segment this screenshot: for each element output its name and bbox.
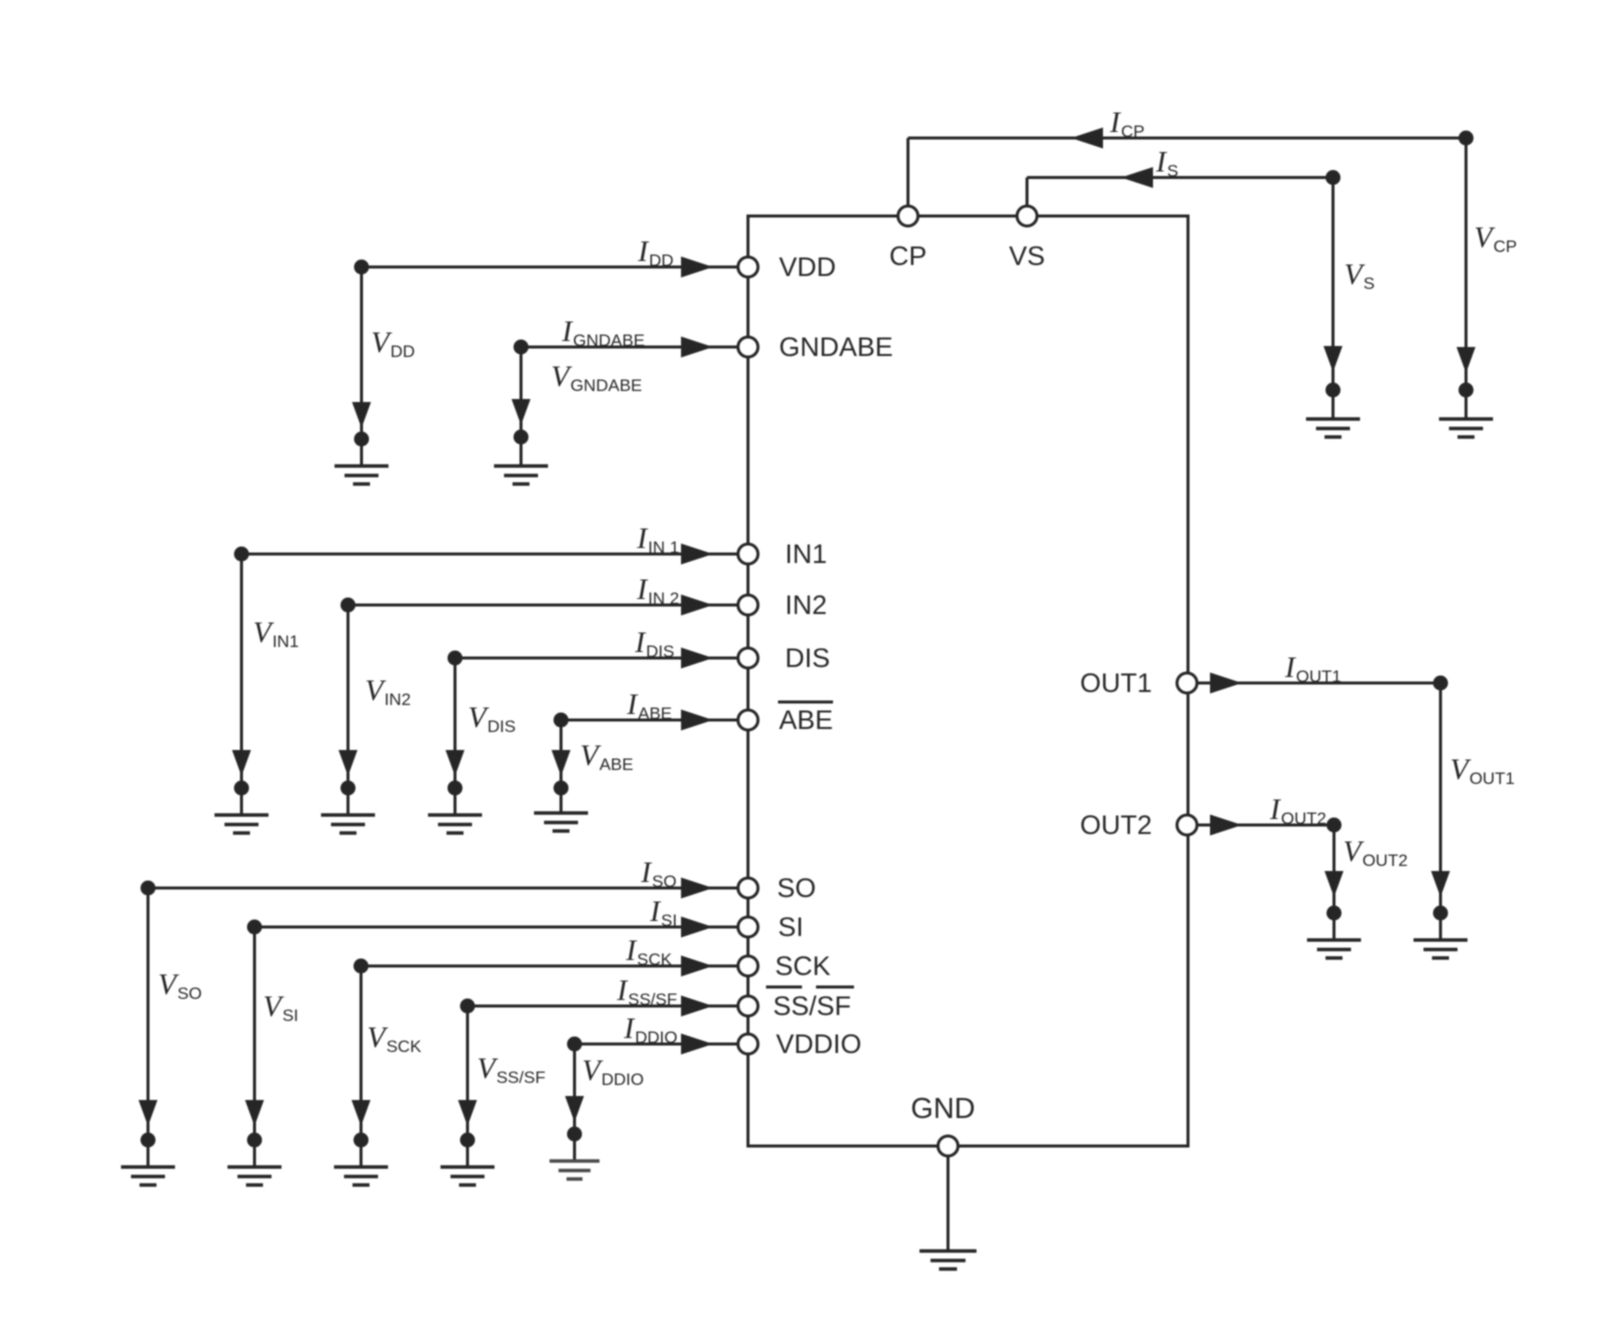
svg-text:OUT2: OUT2 [1080, 810, 1152, 840]
node I_OUT1 / V_OUT1 junction [1433, 676, 1448, 691]
voltage source V_OUT1 [1431, 683, 1450, 940]
node I_S / V_S junction [1326, 170, 1341, 185]
node source GNDABE [514, 340, 529, 355]
current arrow I_DD [681, 257, 713, 278]
wire GND to ground [947, 1156, 950, 1251]
voltage source V_DD [352, 267, 371, 466]
current arrow I_CP [1071, 128, 1103, 149]
svg-text:GNDABE: GNDABE [779, 332, 893, 362]
voltage source V_OUT2 [1325, 825, 1344, 940]
ground (V_IN 1) [215, 815, 269, 833]
pin IN1 [738, 544, 758, 564]
node I_CP / V_CP junction [1459, 131, 1474, 146]
svg-text:CP: CP [889, 241, 927, 271]
pin SI [738, 917, 758, 937]
ground (V_SI) [228, 1167, 282, 1185]
voltage source V_IN 1 [232, 554, 251, 815]
svg-text:OUT1: OUT1 [1080, 668, 1152, 698]
pin VDD [738, 257, 758, 277]
node I_OUT2 / V_OUT2 junction [1327, 818, 1342, 833]
current arrow I_S [1121, 167, 1153, 188]
voltage source V_IN 2 [339, 605, 358, 815]
voltage source V_SCK [352, 966, 371, 1167]
voltage source V_GNDABE [512, 347, 531, 466]
node source DIS [448, 651, 463, 666]
pin SCK [738, 956, 758, 976]
wire I_SO to pin SO [148, 887, 738, 890]
svg-text:SO: SO [777, 873, 816, 903]
pin DIS [738, 648, 758, 668]
node source VDD [354, 260, 369, 275]
ground (V_DDIO) [550, 1161, 600, 1179]
current arrow I_OUT2 [1210, 815, 1242, 836]
pin SO [738, 878, 758, 898]
pin SS/SF [738, 996, 758, 1016]
voltage source V_S [1324, 178, 1343, 420]
node source IN1 [234, 547, 249, 562]
current arrow I_SO [681, 878, 713, 899]
current arrow I_SCK [681, 956, 713, 977]
current arrow I_DDIO [681, 1034, 713, 1055]
ground (V_ABE) [534, 813, 588, 831]
wire I_CP (CP riser + horizontal) [908, 138, 1466, 206]
ground (V_S) [1306, 419, 1360, 437]
svg-text:VDDIO: VDDIO [776, 1029, 862, 1059]
current arrow I_IN 1 [681, 544, 713, 565]
wire I_SS/SF to pin SS/SF [468, 1005, 739, 1008]
wire I_GNDABE to pin GNDABE [521, 346, 738, 349]
wire I_DDIO to pin VDDIO [575, 1043, 739, 1046]
svg-text:VS: VS [1009, 241, 1045, 271]
voltage source V_SS/SF [458, 1006, 477, 1167]
svg-text:VDD: VDD [779, 252, 836, 282]
ground (V_OUT1) [1414, 940, 1468, 958]
ground (V_DD) [335, 466, 389, 484]
ground (V_CP) [1439, 419, 1493, 437]
pin GND [938, 1136, 958, 1156]
ground (V_IN 2) [321, 815, 375, 833]
node source SO [141, 881, 156, 896]
node source IN2 [341, 598, 356, 613]
pin ABE [738, 710, 758, 730]
wire I_IN 1 to pin IN1 [242, 553, 739, 556]
pin IN2 [738, 595, 758, 615]
svg-text:SS/SF: SS/SF [773, 991, 851, 1021]
svg-text:ABE: ABE [779, 705, 833, 735]
current arrow I_GNDABE [681, 337, 713, 358]
svg-text:DIS: DIS [785, 643, 830, 673]
current arrow I_DIS [681, 648, 713, 669]
svg-text:SCK: SCK [775, 951, 831, 981]
ground (V_OUT2) [1307, 940, 1361, 958]
ground (V_SO) [121, 1167, 175, 1185]
voltage source V_CP [1457, 138, 1476, 419]
wire I_SCK to pin SCK [361, 965, 738, 968]
wire I_OUT2 [1197, 824, 1334, 827]
svg-text:GND: GND [911, 1093, 975, 1125]
current arrow I_SI [681, 917, 713, 938]
wire I_DD to pin VDD [362, 266, 739, 269]
current arrow I_IN 2 [681, 595, 713, 616]
pin VS [1017, 206, 1037, 226]
wire I_IN 2 to pin IN2 [348, 604, 738, 607]
current arrow I_OUT1 [1210, 673, 1242, 694]
ground (V_GNDABE) [494, 466, 548, 484]
wire I_DIS to pin DIS [455, 657, 738, 660]
svg-text:IN2: IN2 [785, 590, 827, 620]
voltage source V_SI [245, 927, 264, 1167]
ground (V_SS/SF) [441, 1167, 495, 1185]
voltage source V_ABE [552, 720, 571, 813]
pin CP [898, 206, 918, 226]
node source SI [247, 920, 262, 935]
node source VDDIO [567, 1037, 582, 1052]
current arrow I_ABE [681, 710, 713, 731]
node source SS/SF [460, 999, 475, 1014]
pin GNDABE [738, 337, 758, 357]
pin OUT1 [1177, 673, 1197, 693]
svg-text:SI: SI [778, 912, 804, 942]
voltage source V_DIS [446, 658, 465, 815]
current arrow I_SS/SF [681, 996, 713, 1017]
ground (V_SCK) [334, 1167, 388, 1185]
ground (GND pin) [920, 1251, 977, 1269]
wire I_ABE to pin ABE [561, 719, 738, 722]
wire I_OUT1 [1197, 682, 1441, 685]
svg-text:IN1: IN1 [785, 539, 827, 569]
IC U1 body [748, 216, 1188, 1146]
pin VDDIO [738, 1034, 758, 1054]
wire I_S (VS riser + horizontal) [1027, 178, 1333, 207]
node source ABE [554, 713, 569, 728]
pin OUT2 [1177, 815, 1197, 835]
wire I_SI to pin SI [255, 926, 739, 929]
voltage source V_SO [139, 888, 158, 1167]
ground (V_DIS) [428, 815, 482, 833]
node source SCK [354, 959, 369, 974]
voltage source V_DDIO [565, 1044, 584, 1161]
